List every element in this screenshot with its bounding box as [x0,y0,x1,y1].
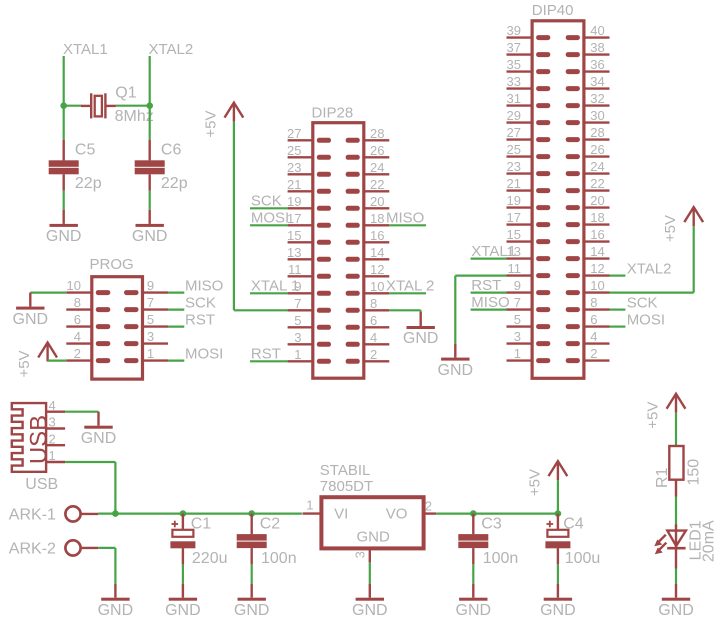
terminal ARK-1 [65,506,98,521]
svg-text:13: 13 [287,245,301,260]
svg-text:USB: USB [25,476,58,493]
IC DIP28 body [313,123,364,379]
DIP40 pin 20 [566,205,610,210]
wire C2 to ground [251,564,253,583]
svg-text:4: 4 [590,329,597,344]
regulator U1 pin 1 [303,512,322,514]
wire R1 to LED1 [675,480,677,527]
wire regulator ground pin [369,562,371,583]
svg-text:GND: GND [81,430,117,447]
svg-text:XTAL2: XTAL2 [149,41,194,58]
ground under regulator [356,584,384,601]
node junction XTAL1 [60,102,67,109]
svg-text:GND: GND [352,602,388,619]
DIP40 pin 40 [566,35,610,40]
PROG pin 10 [66,290,110,295]
DIP40 pin 29 [507,120,551,125]
DIP40 pin 5 [507,324,551,329]
DIP28 pin 19 [288,206,331,211]
capacitor C5 top lead [63,140,65,161]
DIP28 pin 3 [288,342,331,347]
svg-text:34: 34 [590,74,604,89]
ground under C1 [169,584,197,601]
PROG pin 6 [66,324,110,329]
DIP40 pin 34 [566,86,610,91]
svg-text:3: 3 [294,330,301,345]
svg-text:2: 2 [370,347,377,362]
wire DIP40 pin 10 to +5V [610,226,694,293]
svg-text:8: 8 [590,295,597,310]
svg-text:28: 28 [370,126,384,141]
node junction XTAL2 [146,102,153,109]
svg-text:5: 5 [294,313,301,328]
capacitor C5 bottom plate [49,168,79,175]
resistor R1 [669,446,683,480]
DIP40 pin 24 [566,171,610,176]
svg-text:7805DT: 7805DT [320,478,373,495]
wire DIP28 net stub RST [250,360,288,362]
DIP40 pin 28 [566,137,610,142]
USB pin 3 [46,427,65,429]
wire LED1 to ground [675,569,677,584]
svg-text:SCK: SCK [627,295,658,312]
wire DIP28 net stub SCK [250,207,288,209]
capacitor C6 bottom plate [135,168,165,175]
svg-text:150: 150 [686,459,703,486]
wire XTAL1 node to crystal [64,105,82,107]
DIP40 pin 12 [566,273,610,278]
wire C1 to ground [182,564,184,583]
svg-text:STABIL: STABIL [320,462,371,479]
svg-text:14: 14 [590,244,604,259]
svg-text:DIP40: DIP40 [532,2,574,19]
svg-text:21: 21 [287,177,301,192]
svg-text:C4: C4 [563,515,584,532]
DIP40 pin 19 [507,205,551,210]
USB pin 2 [46,444,65,446]
svg-text:2: 2 [74,346,81,361]
DIP28 pin 8 [346,308,390,313]
capacitor C6 top plate [135,160,165,167]
capacitor C4 bottom lead [557,548,559,564]
wire DIP40 net stub SCK [610,309,626,311]
node junction rail at USB [112,510,119,517]
svg-text:37: 37 [507,40,521,55]
svg-text:PROG: PROG [90,256,134,273]
wire DIP40 net stub RST [471,292,507,294]
wire XTAL2 node to C6 [149,106,151,140]
capacitor C1 bottom lead [182,548,184,564]
capacitor C6 top lead [148,140,150,161]
wire DIP28 net stub XTAL 1 [250,292,288,294]
DIP40 pin 38 [566,52,610,57]
svg-text:XTAL1: XTAL1 [63,41,108,58]
DIP28 pin 23 [288,172,331,177]
DIP40 pin 36 [566,69,610,74]
svg-text:28: 28 [590,125,604,140]
svg-text:36: 36 [590,57,604,72]
svg-text:+5V: +5V [16,350,33,377]
svg-text:2: 2 [425,499,432,514]
DIP40 pin 2 [566,358,610,363]
svg-text:MISO: MISO [471,294,509,311]
wire DIP40 net stub MOSI [610,326,626,328]
svg-text:7: 7 [294,296,301,311]
svg-text:VI: VI [334,505,348,522]
svg-text:6: 6 [74,312,81,327]
svg-text:GND: GND [234,602,270,619]
svg-text:22: 22 [590,176,604,191]
capacitor C2 top lead [250,514,252,535]
DIP40 pin 13 [507,256,551,261]
connector USB body [12,403,46,472]
capacitor C6 bottom lead [148,174,150,190]
wire output rail regulator to C4 [436,512,558,514]
DIP40 pin 9 [507,290,551,295]
svg-text:+5V: +5V [662,215,679,242]
ground under C3 [459,584,487,601]
svg-text:MISO: MISO [386,210,424,227]
svg-text:ARK-2: ARK-2 [9,540,56,557]
svg-text:25: 25 [287,143,301,158]
svg-text:24: 24 [590,159,604,174]
capacitor C2 bottom lead [250,548,252,564]
DIP28 pin 28 [346,138,390,143]
svg-text:16: 16 [590,227,604,242]
svg-text:20: 20 [590,193,604,208]
node junction rail at C3 [470,510,477,517]
svg-text:100u: 100u [565,550,601,567]
svg-text:VO: VO [386,505,408,522]
DIP40 pin 16 [566,239,610,244]
svg-text:1: 1 [514,346,521,361]
ground under C4 [544,584,572,601]
DIP28 pin 13 [288,257,331,262]
svg-text:18: 18 [590,210,604,225]
svg-text:GND: GND [132,228,168,245]
svg-text:XTAL 2: XTAL 2 [386,278,434,295]
DIP28 pin 21 [288,189,331,194]
DIP28 pin 20 [346,206,390,211]
svg-text:GND: GND [165,602,201,619]
svg-text:8: 8 [74,295,81,310]
svg-text:11: 11 [288,262,302,277]
wire PROG pin 10 to ground [30,292,66,294]
capacitor C4 bottom plate [545,541,570,548]
svg-text:R1: R1 [654,467,671,488]
DIP28 pin 22 [346,189,390,194]
svg-text:9: 9 [514,278,521,293]
svg-text:MOSI: MOSI [627,312,665,329]
svg-text:10: 10 [590,278,604,293]
DIP40 pin 15 [507,239,551,244]
svg-text:16: 16 [370,228,384,243]
+5V supply symbol at PROG pin 2 [38,343,57,362]
wire C6 to ground [149,191,151,210]
DIP28 pin 2 [346,359,390,364]
ground under C2 [238,584,266,601]
USB pin 1 [46,461,65,463]
wire XTAL1 net [63,56,65,106]
DIP40 pin 33 [507,86,551,91]
svg-text:20: 20 [370,194,384,209]
capacitor C5 bottom lead [63,174,65,190]
svg-text:RST: RST [185,312,215,329]
PROG pin 3 [124,341,168,346]
capacitor C3 top plate [458,534,488,541]
svg-text:26: 26 [590,142,604,157]
DIP40 pin 31 [507,103,551,108]
svg-text:23: 23 [507,159,521,174]
svg-text:1: 1 [49,448,56,463]
svg-text:XTAL 1: XTAL 1 [251,278,299,295]
terminal ARK-2 [65,540,98,555]
capacitor C4 plus sign [547,521,554,528]
svg-text:C2: C2 [260,515,281,532]
DIP28 pin 6 [346,325,390,330]
svg-text:24: 24 [370,160,384,175]
wire DIP40 net stub XTAL2 [610,275,626,277]
PROG pin 2 [66,358,110,363]
wire PROG net stub SCK [168,309,184,311]
wire USB pin 1 to supply rail [65,462,115,514]
svg-text:22: 22 [370,177,384,192]
DIP40 pin 3 [507,341,551,346]
svg-text:38: 38 [590,40,604,55]
svg-text:4: 4 [49,398,56,413]
svg-text:GND: GND [98,602,134,619]
node junction rail at C1 [180,510,187,517]
LED LED1 [667,525,686,569]
svg-text:30: 30 [590,108,604,123]
DIP28 pin 26 [346,155,390,160]
svg-text:Q1: Q1 [115,84,136,101]
connector PROG body [92,277,143,379]
svg-text:27: 27 [287,126,301,141]
DIP40 pin 11 [507,273,551,278]
svg-text:3: 3 [514,329,521,344]
svg-text:2: 2 [49,431,56,446]
DIP28 pin 9 [288,291,331,296]
capacitor C3 bottom lead [472,548,474,564]
wire crystal to XTAL2 node [115,105,150,107]
crystal Q1 [81,93,116,118]
svg-text:7: 7 [147,295,154,310]
DIP28 pin 5 [288,325,331,330]
wire DIP40 net stub XTAL1 [471,258,507,260]
svg-text:22p: 22p [75,175,102,192]
svg-text:25: 25 [507,142,521,157]
svg-text:SCK: SCK [185,295,216,312]
svg-text:18: 18 [370,211,384,226]
wire PROG net stub MOSI [168,360,184,362]
ground at DIP28 pin 8 [407,312,435,329]
DIP28 pin 1 [288,359,331,364]
svg-text:GND: GND [403,330,439,347]
DIP40 pin 6 [566,324,610,329]
wire C3 to ground [472,564,474,583]
svg-text:GND: GND [658,602,694,619]
wire XTAL2 net [149,56,151,106]
wire +5V to R1 [675,413,677,446]
svg-text:39: 39 [507,23,521,38]
DIP40 pin 21 [507,188,551,193]
PROG pin 8 [66,307,110,312]
svg-text:22p: 22p [161,175,188,192]
svg-text:1: 1 [147,346,154,361]
capacitor C1 bottom plate [170,541,195,548]
svg-text:ARK-1: ARK-1 [9,506,56,523]
wire DIP28 net stub MISO [389,224,426,226]
svg-text:C6: C6 [161,141,182,158]
ground at USB pin 4 [84,412,112,429]
wire C5 to ground [63,191,65,210]
wire DIP40 net stub MISO [471,309,507,311]
capacitor C4 top lead [557,514,559,530]
DIP28 pin 16 [346,240,390,245]
DIP28 pin 7 [288,308,331,313]
DIP40 pin 25 [507,154,551,159]
DIP28 pin 4 [346,342,390,347]
DIP40 pin 10 [566,290,610,295]
svg-text:4: 4 [74,329,81,344]
wire DIP28 net stub XTAL 2 [389,292,426,294]
DIP40 pin 35 [507,69,551,74]
wire DIP40 pin 11 to ground [455,276,506,344]
svg-text:C1: C1 [191,515,212,532]
DIP40 pin 4 [566,341,610,346]
DIP40 pin 1 [507,358,551,363]
wire +5V to output rail [557,480,559,513]
svg-text:21: 21 [507,176,521,191]
capacitor C2 bottom plate [237,542,267,549]
svg-text:GND: GND [13,311,49,328]
PROG pin 9 [124,290,168,295]
DIP40 pin 18 [566,222,610,227]
svg-text:220u: 220u [192,550,228,567]
DIP28 pin 18 [346,223,390,228]
svg-text:GND: GND [456,602,492,619]
capacitor C4 top plate [547,530,568,537]
wire ARK-2 to ground [98,548,115,584]
svg-text:100n: 100n [261,550,297,567]
capacitor C3 bottom plate [458,542,488,549]
DIP40 pin 8 [566,307,610,312]
svg-text:10: 10 [67,278,81,293]
capacitor C3 top lead [472,514,474,535]
wire XTAL1 node to C5 [63,106,65,140]
svg-text:19: 19 [507,193,521,208]
capacitor C2 top plate [237,534,267,541]
ground under C6 [136,210,164,227]
PROG pin 1 [124,358,168,363]
wire DIP28 net stub MOSI [250,224,288,226]
DIP28 pin 24 [346,172,390,177]
DIP28 pin 27 [288,138,331,143]
svg-text:3: 3 [49,415,56,430]
svg-text:DIP28: DIP28 [312,105,354,122]
svg-text:26: 26 [370,143,384,158]
DIP28 pin 17 [288,223,331,228]
svg-text:27: 27 [507,125,521,140]
wire PROG net stub MISO [168,292,184,294]
DIP40 pin 39 [507,35,551,40]
svg-text:9: 9 [147,278,154,293]
svg-text:4: 4 [370,330,377,345]
DIP28 pin 15 [288,240,331,245]
svg-text:RST: RST [251,346,281,363]
DIP28 pin 10 [346,291,390,296]
LED LED1 emission arrows [654,535,666,555]
svg-text:5: 5 [514,312,521,327]
DIP40 pin 14 [566,256,610,261]
svg-text:31: 31 [507,91,521,106]
svg-text:GND: GND [357,528,391,545]
svg-text:GND: GND [540,602,576,619]
ground under ARK-2 [101,584,129,601]
svg-text:40: 40 [590,23,604,38]
svg-text:33: 33 [507,74,521,89]
PROG pin 5 [124,324,168,329]
DIP28 pin 11 [288,274,331,279]
svg-text:11: 11 [508,261,522,276]
DIP40 pin 22 [566,188,610,193]
regulator U1 pin 3 [369,548,371,562]
svg-text:17: 17 [507,210,521,225]
svg-text:3: 3 [147,329,154,344]
wire C4 to ground [557,564,559,583]
capacitor C1 top plate [172,530,193,537]
svg-text:7: 7 [514,295,521,310]
svg-text:GND: GND [46,228,82,245]
node junction rail at C2 [248,510,255,517]
wire input rail ARK-1 to regulator [98,512,302,514]
DIP40 pin 26 [566,154,610,159]
svg-text:5: 5 [147,312,154,327]
svg-text:XTAL1: XTAL1 [471,243,516,260]
svg-text:1: 1 [306,498,313,513]
svg-text:+5V: +5V [202,111,219,138]
node junction rail at C4 [555,510,562,517]
USB pin 4 [46,411,65,413]
IC DIP40 body [532,21,584,379]
DIP40 pin 23 [507,171,551,176]
wire PROG pin 2 to +5V [48,360,67,362]
wire +5V to DIP28 pin 7 [234,122,288,311]
svg-text:23: 23 [287,160,301,175]
svg-text:100n: 100n [483,550,519,567]
wire PROG net stub RST [168,326,184,328]
svg-text:C5: C5 [75,141,96,158]
DIP28 pin 25 [288,155,331,160]
capacitor C5 top plate [49,160,79,167]
capacitor C1 top lead [182,514,184,530]
svg-text:XTAL2: XTAL2 [627,261,672,278]
DIP40 pin 7 [507,307,551,312]
svg-text:1: 1 [294,347,301,362]
svg-text:14: 14 [370,245,384,260]
svg-text:3: 3 [353,551,368,558]
svg-text:19: 19 [287,194,301,209]
svg-text:12: 12 [590,261,604,276]
svg-text:+5V: +5V [526,469,543,496]
PROG pin 4 [66,341,110,346]
ground under LED1 [662,584,690,601]
regulator U1 pin 2 [424,512,437,514]
svg-text:MOSI: MOSI [251,210,289,227]
svg-text:SCK: SCK [251,193,282,210]
+5V supply symbol at output rail [549,461,568,480]
